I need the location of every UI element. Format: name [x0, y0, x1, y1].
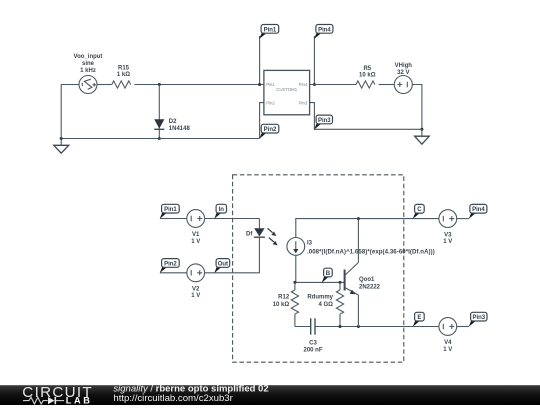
svg-text:Pin2: Pin2: [264, 127, 277, 133]
svg-text:C3: C3: [309, 341, 317, 347]
label Rdummy 4 GOhm: [307, 295, 333, 308]
svg-text:E: E: [417, 315, 421, 321]
wire: bottom rail C3 to E flag: [315, 326, 413, 328]
svg-text:V4: V4: [444, 340, 452, 346]
net flag In: [214, 204, 226, 219]
svg-text:V3: V3: [444, 232, 452, 238]
LED Df: [254, 228, 278, 245]
wire: CUSTOM Pin4 to R5: [310, 84, 356, 86]
capacitor C3: [311, 318, 315, 334]
wire: R5 to VHigh: [379, 84, 395, 86]
wire: V3 to Pin4 flag: [457, 218, 469, 220]
CircuitLab logo: [22, 384, 93, 406]
junction Pin1 stem: [258, 83, 261, 86]
wire: Pin1 flag stem: [259, 36, 261, 85]
svg-text:Pin4: Pin4: [299, 82, 308, 87]
voltage source V2: [187, 264, 205, 282]
svg-text:VHigh: VHigh: [395, 63, 413, 69]
wire: R15 to CUSTOM Pin1: [134, 84, 264, 86]
net flag Out: [214, 259, 230, 274]
net flag B: [322, 268, 333, 283]
wire: V1 to LED top: [205, 218, 260, 220]
dashed subcircuit boundary: [233, 175, 404, 362]
svg-text:1 kHz: 1 kHz: [80, 68, 96, 74]
svg-text:D2: D2: [169, 119, 177, 125]
label V2 1 V: [191, 287, 200, 300]
wire: base rail: [295, 281, 345, 283]
net flag Pin1 (lower): [160, 204, 180, 219]
svg-text:Pin1: Pin1: [266, 82, 275, 87]
net flag C: [413, 204, 425, 219]
net flag Pin4 (lower): [469, 204, 487, 219]
junction collector top: [357, 217, 360, 220]
wire: LED anode drop: [258, 219, 260, 229]
svg-text:Pin1: Pin1: [264, 27, 277, 33]
svg-text:C: C: [417, 207, 422, 213]
svg-text:I3: I3: [307, 241, 313, 247]
net flag Pin2 (top): [259, 124, 279, 139]
label I3 and expression: [307, 241, 435, 256]
wire: V4 to Pin3 flag: [457, 326, 469, 328]
voltage source Voo_input (sine): [79, 76, 97, 94]
svg-text:1 V: 1 V: [443, 347, 452, 353]
transistor Qoo1: [345, 263, 359, 296]
svg-text:Pin2: Pin2: [266, 100, 275, 105]
junction at input ground: [60, 137, 63, 140]
svg-text:1 V: 1 V: [443, 239, 452, 245]
net flag Pin2 (lower): [160, 259, 180, 274]
label D2 1N4148: [169, 119, 191, 132]
footer bar: [0, 385, 540, 405]
svg-text:2N2222: 2N2222: [359, 285, 381, 291]
wire: VHigh right drop to ground: [412, 85, 422, 137]
resistor Rdummy: [336, 282, 343, 326]
svg-text:LAB: LAB: [66, 396, 93, 405]
svg-text:Pin2: Pin2: [164, 261, 177, 267]
svg-text:In: In: [219, 207, 225, 213]
svg-text:http://circuitlab.com/c2xub3r: http://circuitlab.com/c2xub3r: [113, 393, 233, 404]
svg-text:1 kΩ: 1 kΩ: [117, 72, 130, 78]
svg-text:V2: V2: [192, 287, 200, 293]
junction Pin4 stem: [313, 83, 316, 86]
label Qoo1 2N2222: [359, 277, 381, 290]
label V1 1 V: [191, 232, 200, 245]
svg-text:R15: R15: [118, 66, 130, 72]
svg-text:1N4148: 1N4148: [169, 126, 191, 132]
svg-text:10 kΩ: 10 kΩ: [359, 73, 376, 79]
svg-text:Df: Df: [246, 232, 253, 238]
net flag E: [413, 312, 425, 327]
junction emitter bottom: [357, 325, 360, 328]
voltage source V4: [439, 318, 457, 336]
wire: V2 to Pin2 flag: [160, 272, 187, 274]
resistor R15: [112, 81, 131, 88]
wire: bottom rail to Pin2 flag: [61, 138, 259, 140]
wire: CUSTOM Pin3 to VHigh ground node: [310, 103, 422, 130]
ground (VHigh): [415, 136, 430, 144]
resistor R12: [291, 282, 298, 326]
wire: LED cathode to V2 row: [205, 237, 260, 273]
wire: Voo_input left lead and left drop to ground rail: [61, 85, 79, 139]
svg-text:1 V: 1 V: [191, 239, 200, 245]
voltage source VHigh: [394, 76, 412, 94]
wire: Voo_input to R15: [97, 84, 112, 86]
label V3 1 V: [443, 232, 452, 245]
label R15 1 kOhm: [117, 66, 130, 79]
junction base/Rdummy: [339, 281, 342, 284]
custom component U1 CUSTOM1: [264, 70, 310, 114]
label R5 10 kOhm: [359, 66, 376, 79]
resistor R5: [356, 81, 375, 88]
svg-text:sine: sine: [82, 61, 95, 67]
net flag Pin3 (lower): [469, 312, 487, 327]
svg-text:V1: V1: [192, 232, 200, 238]
svg-text:4 GΩ: 4 GΩ: [319, 302, 334, 308]
wire: I3 top to C flag: [296, 219, 413, 238]
current source I3: [287, 238, 305, 256]
label V4 1 V: [443, 340, 452, 353]
label C3 200 nF: [303, 341, 322, 354]
voltage source V3: [439, 210, 457, 228]
svg-text:32 V: 32 V: [397, 70, 409, 76]
svg-text:Voo_input: Voo_input: [74, 54, 103, 60]
junction at D2 cathode: [158, 137, 161, 140]
junction base/R12: [293, 281, 296, 284]
svg-text:Pin1: Pin1: [164, 207, 177, 213]
wire: E to V4: [413, 326, 439, 328]
diode D2: [154, 119, 164, 129]
svg-text:Pin3: Pin3: [299, 100, 308, 105]
svg-text:Out: Out: [218, 261, 228, 267]
net flag Pin3 (top): [314, 115, 332, 130]
net flag Pin4 (top): [314, 25, 333, 40]
svg-text:Rdummy: Rdummy: [307, 295, 333, 301]
svg-text:200 nF: 200 nF: [303, 347, 322, 353]
net flag Pin1 (top): [259, 25, 279, 40]
junction at D2 anode: [158, 83, 161, 86]
svg-text:Pin4: Pin4: [318, 27, 331, 33]
wire: D2 anode drop: [158, 85, 160, 139]
label VHigh 32 V: [395, 63, 413, 76]
svg-text:R5: R5: [363, 66, 371, 72]
junction VHigh ground node: [420, 128, 423, 131]
svg-text:1 V: 1 V: [191, 293, 200, 299]
wire: C to V3: [413, 218, 439, 220]
svg-text:Pin3: Pin3: [472, 315, 485, 321]
svg-text:R12: R12: [278, 295, 290, 301]
wire: Pin1 to V1: [160, 218, 187, 220]
wire: CUSTOM Pin2 stub: [260, 103, 264, 139]
voltage source V1: [187, 210, 205, 228]
wire: bottom rail left of C3: [295, 326, 311, 328]
ground (input): [54, 139, 69, 154]
svg-text:Pin4: Pin4: [472, 207, 485, 213]
wire: collector vertical: [357, 219, 359, 263]
wire: I3 bottom to base node: [295, 255, 297, 282]
svg-text:B: B: [326, 271, 331, 277]
wire: Pin4 flag stem: [313, 36, 315, 85]
svg-text:CUSTOM1: CUSTOM1: [276, 87, 298, 92]
label Voo_input sine 1 kHz: [74, 54, 103, 74]
junction Rdummy bottom: [339, 325, 342, 328]
wire: emitter vertical: [357, 295, 359, 327]
svg-text:10 kΩ: 10 kΩ: [273, 302, 290, 308]
svg-text:Qoo1: Qoo1: [359, 277, 375, 283]
svg-text:.008*(I(Df.nA)^1.658)*(exp(4.3: .008*(I(Df.nA)^1.658)*(exp(4.36-60*I(Df.…: [307, 249, 435, 256]
svg-text:Pin3: Pin3: [318, 118, 331, 124]
label R12 10 kOhm: [273, 295, 290, 308]
